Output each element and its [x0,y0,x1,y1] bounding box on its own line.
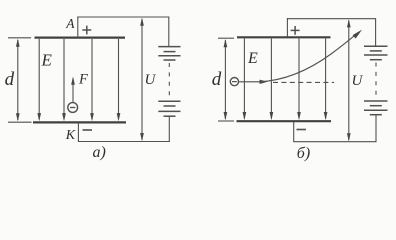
wire right vertical down to battery top (right) [375,18,377,46]
battery GB2: cell 4 short plate [370,114,382,116]
polarity − at bottom plate (right) [297,129,307,131]
battery GB2: cell 4 long plate [364,109,388,111]
field line E3 (right) [298,39,300,119]
svg-text:d: d [5,69,15,90]
battery GB2: dashed continuation between cell groups [375,63,377,100]
svg-text:E: E [247,50,258,67]
wire step down from bottom plate (right) [293,122,295,142]
dimension d (right): vertical line with arrows [224,40,226,119]
wire riser from top plate to top wire (right) [286,18,288,37]
battery GB2: cell 2 long plate [364,54,388,56]
battery GB1: cell 3 short plate [164,105,176,107]
battery GB2: cell 2 short plate [370,59,382,61]
velocity arrow (horizontal) from charge [239,81,261,83]
wire riser from plate A to top wire [77,17,79,38]
wire bottom horizontal to plate K step [78,141,170,143]
battery GB1: cell 4 long plate [158,110,180,112]
polarity + at top plate (right) [291,26,300,35]
svg-text:E: E [41,50,53,69]
dimension d: vertical line with arrows [17,40,19,120]
battery GB1: cell 4 short plate [164,115,176,117]
trajectory curve of electron (parabola then straight), right figure [259,35,356,82]
wire bottom horizontal to bottom plate step (right) [294,141,377,143]
battery GB2 (right figure): cell 1 long plate [364,45,388,47]
dimension U: vertical line with arrows, left figure [141,19,143,140]
battery GB1: cell 1 short plate [164,51,176,53]
dimension d (right): top tick [218,37,234,39]
svg-text:б): б) [297,145,310,162]
polarity − at plate K [83,129,93,131]
field line E2 [63,39,65,120]
wire from bottom battery terminal down (right) [375,115,377,142]
electron charge (circle with minus), left figure [68,103,78,113]
field line E1 (right) [243,39,245,119]
svg-text:A: A [65,16,75,31]
battery GB1: cell 3 long plate [158,100,180,102]
wire top horizontal to battery [77,16,169,18]
field line E1 [38,39,40,120]
battery GB2: cell 3 short plate [370,105,382,107]
wire from bottom battery terminal down [168,116,170,142]
field line E3 [91,39,93,120]
field line E2 (right) [270,39,272,119]
polarity + at plate A [82,26,91,35]
svg-text:K: K [65,128,76,143]
battery GB2: cell 3 long plate [364,100,388,102]
plate K (bottom capacitor plate, left figure) [33,121,126,123]
wire top horizontal to battery (right) [287,18,376,20]
dimension d (right): bottom tick [218,120,234,122]
wire right vertical down to battery top [168,17,170,47]
plate A (top capacitor plate, left figure) [35,36,126,38]
battery GB1: cell 2 long plate [158,55,180,57]
dimension d: top tick [8,37,31,39]
battery GB1 (left figure): cell 1 long plate [158,46,180,48]
svg-text:U: U [145,72,157,88]
battery GB2: cell 1 short plate [370,50,382,52]
svg-text:d: d [212,69,222,90]
svg-text:а): а) [93,144,106,161]
battery GB1: dashed continuation between cell groups [168,63,170,100]
wire step down from plate K [77,123,79,142]
force F arrow (up from charge) [72,79,74,103]
dimension d: bottom tick [8,121,32,123]
plate top (right figure) [237,36,331,38]
electron charge (circle with minus), right figure [230,78,238,86]
field line E4 [118,39,120,120]
svg-text:U: U [352,73,364,89]
dimension U: vertical line with arrows, right figure [348,21,350,141]
battery GB1: cell 2 short plate [164,59,176,61]
plate bottom (right figure) [237,120,332,122]
field line E4 (right) [325,39,327,119]
svg-text:F: F [78,71,88,87]
dashed initial-direction line, right figure [273,81,334,83]
